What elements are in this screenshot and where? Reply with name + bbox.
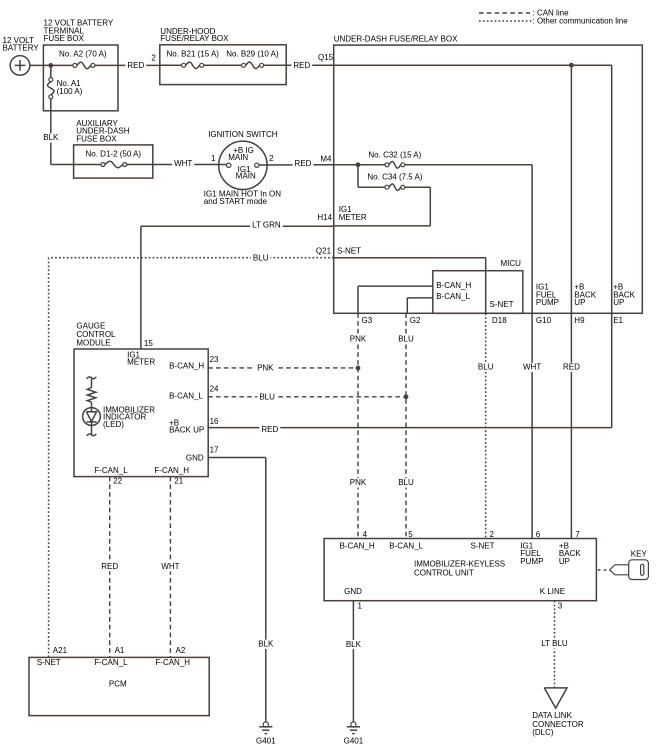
svg-text:2: 2 [151,54,156,63]
svg-text:UP: UP [613,298,624,307]
svg-text:1: 1 [358,601,363,610]
immobilizer indicator LED [83,405,156,436]
fuse D1-2 (50 A) [74,149,153,167]
svg-text:RED: RED [261,425,278,434]
immobilizer GND pin [344,587,362,610]
svg-text:WHT: WHT [523,363,541,372]
svg-text:23: 23 [210,355,219,364]
gauge pin 16 +B BACK UP [169,417,219,435]
immobilizer-keyless control unit [324,539,596,601]
junction PNK G3 [356,366,361,371]
svg-text:A1: A1 [115,646,125,655]
wire RED under-hood to under-dash Q15 [286,53,334,70]
svg-text:D18: D18 [492,316,507,325]
svg-text:16: 16 [210,417,219,426]
svg-text:(100 A): (100 A) [57,87,83,96]
svg-text:S-NET: S-NET [37,658,61,667]
svg-text:G10: G10 [536,316,552,325]
PCM pin A1 F-CAN_L [94,646,128,667]
wire C34 branch to H14 [334,165,431,226]
svg-text:PUMP: PUMP [536,298,559,307]
wire inside under-hood box [160,64,286,66]
svg-text:K LINE: K LINE [540,587,565,596]
svg-text:BLK: BLK [258,640,274,649]
wire RED H9 label [561,363,582,372]
svg-text:(DLC): (DLC) [532,728,554,737]
ground G401 right [351,722,356,727]
svg-text:7: 7 [575,530,580,539]
pin H14 label IG1 METER [339,205,367,222]
svg-text:B-CAN_H: B-CAN_H [340,541,375,550]
svg-text:BATTERY: BATTERY [3,44,40,53]
svg-text:FUSE BOX: FUSE BOX [76,134,117,143]
svg-text:22: 22 [113,476,122,485]
fuse B21 (15 A) [167,50,220,69]
PCM [29,657,209,715]
immobilizer K LINE pin [540,587,565,610]
wire BLU pin 24 to G2 line [208,392,406,401]
svg-text:BACK UP: BACK UP [169,426,204,435]
svg-text:B-CAN_L: B-CAN_L [389,541,423,550]
svg-text:S-NET: S-NET [490,300,514,309]
svg-text:B-CAN_H: B-CAN_H [436,281,471,290]
svg-text:LT GRN: LT GRN [252,220,281,229]
svg-text:and START mode: and START mode [204,197,268,206]
resistor [87,377,97,408]
svg-text:G3: G3 [362,316,373,325]
svg-text:Q21: Q21 [316,246,332,255]
svg-text:G2: G2 [410,316,421,325]
svg-text:H9: H9 [574,316,585,325]
wire LT GRN H14 to gauge module pin 15 [141,213,334,349]
junction H9 feed [569,63,574,68]
wire PNK G3 to immobilizer pin 4 [348,313,368,538]
svg-text:A2: A2 [176,646,186,655]
svg-text:BLU: BLU [478,363,494,372]
svg-text:(LED): (LED) [103,420,124,429]
svg-text:RED: RED [293,61,310,70]
svg-text:No. B29 (10 A): No. B29 (10 A) [226,50,279,59]
junction BLU G2 [404,394,409,399]
wire RED terminal box to under-hood box [118,54,160,71]
svg-text:WHT: WHT [174,159,192,168]
junction C34 branch [356,162,361,167]
fuse C32 (15 A) [368,150,421,168]
svg-text:MICU: MICU [501,259,522,268]
svg-text:MAIN: MAIN [228,153,248,162]
fuse B29 (10 A) [226,50,279,69]
junction battery feed [48,63,53,68]
svg-text:B-CAN_H: B-CAN_H [169,362,204,371]
under-dash pin labels +B BACK UP (E1) [613,283,635,308]
svg-text:F-CAN_L: F-CAN_L [94,466,128,475]
svg-text:UP: UP [559,557,570,566]
svg-text:BLK: BLK [346,640,362,649]
fuse A1 (100 A) [48,65,83,98]
svg-text:PCM: PCM [109,680,127,689]
svg-text:2: 2 [269,154,274,163]
gauge pin 22 F-CAN_L [94,466,128,486]
svg-text:Q15: Q15 [318,53,334,62]
wire RED pin 16 from E1 [208,425,612,434]
svg-text:A21: A21 [53,646,68,655]
svg-text:17: 17 [210,446,219,455]
legend other communication line [479,16,628,25]
svg-text:15: 15 [144,339,153,348]
svg-text:UNDER-DASH FUSE/RELAY BOX: UNDER-DASH FUSE/RELAY BOX [334,35,458,44]
svg-text:BLU: BLU [398,478,414,487]
svg-text:H14: H14 [317,213,332,222]
svg-text:FUSE/RELAY BOX: FUSE/RELAY BOX [160,34,229,43]
svg-text:MODULE: MODULE [76,338,110,347]
wire S-NET Q21 to D18 inside box [334,246,486,313]
PCM pin A21 S-NET [37,646,68,667]
gauge control module [74,321,208,476]
ground G401 left [263,722,268,727]
wire BLK battery to auxiliary fuse box [41,99,73,165]
svg-text:RED: RED [295,159,312,168]
wire H9 drop [570,65,572,538]
svg-text:BLU: BLU [259,392,275,401]
svg-text:S-NET: S-NET [337,246,361,255]
svg-text:S-NET: S-NET [471,541,495,550]
svg-text:RED: RED [101,562,118,571]
PCM pin A2 F-CAN_H [155,646,190,667]
wire BLK pin 17 to G401 [208,458,275,722]
svg-text:5: 5 [408,530,413,539]
svg-text:FUSE BOX: FUSE BOX [44,34,85,43]
immobilizer pin labels [340,541,495,550]
svg-text:LT BLU: LT BLU [541,639,568,648]
wire Q15 feed inside box to E1 drop [334,65,612,427]
immobilizer +B BACK UP pin [559,541,581,566]
svg-text:WHT: WHT [161,562,179,571]
svg-text:UP: UP [574,298,585,307]
wire BLU G2 to immobilizer pin 5 [396,313,416,538]
svg-text:F-CAN_H: F-CAN_H [154,466,189,475]
svg-text:PNK: PNK [350,478,367,487]
svg-text:MAIN: MAIN [236,172,256,181]
data link connector DLC [532,688,584,737]
wire M4 to fuse C32 to G10 drop [334,165,532,539]
wire BLU S-NET Q21 to PCM A21 [49,246,334,657]
svg-text:PNK: PNK [350,335,367,344]
wire WHT aux box to ignition switch [153,154,227,169]
legend CAN line [479,9,569,18]
svg-text:4: 4 [363,530,368,539]
gauge pin 15 label [127,350,155,366]
fuse A2 (70 A) [59,50,107,69]
svg-text:B-CAN_L: B-CAN_L [169,391,203,400]
svg-text:KEY: KEY [631,550,648,559]
svg-text:6: 6 [536,530,541,539]
svg-text:G401: G401 [344,737,364,746]
svg-text:E1: E1 [613,316,623,325]
gauge pin 24 B-CAN_L [169,384,219,400]
svg-text:PNK: PNK [257,364,274,373]
svg-text:GND: GND [344,587,362,596]
svg-text:F-CAN_L: F-CAN_L [94,658,128,667]
key [598,550,649,580]
ignition switch [204,130,281,206]
svg-text:21: 21 [174,476,183,485]
under-dash pin labels +B BACK UP (H9) [574,283,596,308]
gauge pin 21 F-CAN_H [154,466,189,486]
svg-text:METER: METER [339,213,367,222]
MICU [433,259,523,314]
fuse C34 (7.5 A) [367,173,422,191]
svg-text:B-CAN_L: B-CAN_L [436,292,470,301]
gauge pin 23 B-CAN_H [169,355,219,371]
svg-text:No. C34 (7.5 A): No. C34 (7.5 A) [367,173,422,182]
svg-text:PUMP: PUMP [520,557,543,566]
12 volt battery terminal fuse box [43,19,118,111]
wire B-CAN_L MICU to G2 [407,292,470,314]
wire WHT F-CAN_H to PCM A2 [159,477,181,658]
under-dash pin labels IG1 FUEL PUMP [536,283,559,308]
wire WHT G10 label [521,363,543,372]
svg-text:BLU: BLU [398,335,414,344]
svg-text:CONTROL UNIT: CONTROL UNIT [414,569,474,578]
under-dash bottom pin names [362,316,624,325]
svg-text:2: 2 [490,530,495,539]
svg-text:GND: GND [186,454,204,463]
svg-text:BLU: BLU [253,253,269,262]
under-dash fuse/relay box [334,35,643,314]
immobilizer IG1 FUEL PUMP pin [520,541,543,566]
svg-text:G401: G401 [256,737,276,746]
svg-text:1: 1 [211,154,216,163]
wire PNK pin 23 to G3 line [208,364,358,373]
wire RED ignition switch to M4 [259,154,334,169]
svg-text:METER: METER [127,358,155,367]
auxiliary under-dash fuse box [74,119,153,178]
battery 12V [3,36,40,75]
svg-text:IGNITION SWITCH: IGNITION SWITCH [208,130,278,139]
gauge pin 17 GND [186,446,219,463]
svg-text:No. B21 (15 A): No. B21 (15 A) [167,50,220,59]
svg-text:GAUGE: GAUGE [76,321,105,330]
svg-text:RED: RED [563,363,580,372]
svg-text:No. C32 (15 A): No. C32 (15 A) [368,150,421,159]
svg-text:RED: RED [127,61,144,70]
svg-text:No. A2 (70 A): No. A2 (70 A) [59,50,107,59]
wire B-CAN_H MICU to G3 [358,281,472,313]
svg-text:BLK: BLK [43,133,59,142]
under-hood fuse/relay box [160,27,286,85]
svg-text:3: 3 [558,601,563,610]
svg-text:: Other communication line: : Other communication line [533,16,629,25]
wire BLK immobilizer GND to G401 [344,601,363,722]
svg-text:F-CAN_H: F-CAN_H [155,658,190,667]
wire battery to A2 fuse [30,64,75,66]
wire RED F-CAN_L to PCM A1 [99,477,120,658]
svg-text:M4: M4 [320,155,332,164]
immobilizer pin numbers [363,530,581,539]
svg-text:No. D1-2 (50 A): No. D1-2 (50 A) [86,149,142,158]
wire BLU S-NET D18 to immobilizer pin 2 [476,313,496,538]
svg-text:24: 24 [210,384,219,393]
svg-text:IMMOBILIZER-KEYLESS: IMMOBILIZER-KEYLESS [414,559,505,568]
svg-text:DATA LINK: DATA LINK [532,711,572,720]
wire fuse A2 to box edge [95,64,118,66]
wire LT BLU K line to DLC [539,601,569,688]
